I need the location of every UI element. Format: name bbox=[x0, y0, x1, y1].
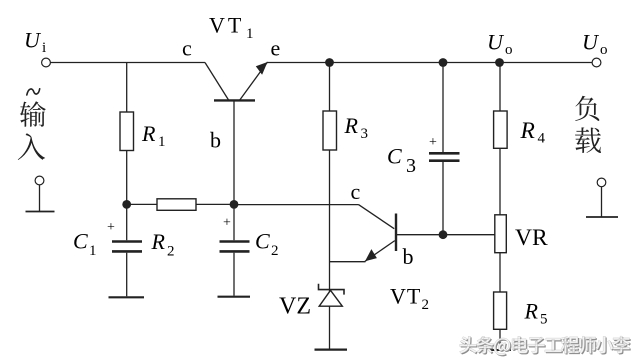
svg-text:R: R bbox=[151, 229, 166, 254]
svg-text:VZ: VZ bbox=[279, 294, 311, 320]
svg-text:VT: VT bbox=[209, 13, 244, 38]
node junction rail-R3 bbox=[325, 58, 334, 67]
label 输 bbox=[20, 101, 46, 127]
capacitor C2 bbox=[218, 204, 251, 296]
svg-text:o: o bbox=[600, 42, 608, 58]
svg-text:U: U bbox=[487, 30, 505, 55]
node junction rail-R4 (Uo) bbox=[495, 58, 504, 67]
resistor R4 bbox=[494, 63, 508, 215]
watermark 头条@电子工程师小李 bbox=[459, 336, 631, 356]
wire to VT2 collector bbox=[234, 204, 359, 206]
wire node to VR wiper bbox=[443, 234, 495, 236]
capacitor C1 bbox=[109, 204, 145, 297]
svg-text:b: b bbox=[403, 244, 414, 269]
svg-text:3: 3 bbox=[361, 126, 369, 142]
svg-text:o: o bbox=[505, 42, 513, 58]
label 入 bbox=[18, 133, 45, 160]
terminal input lower bbox=[35, 176, 44, 185]
svg-text:2: 2 bbox=[422, 297, 430, 313]
svg-text:e: e bbox=[271, 36, 281, 61]
terminal Ui bbox=[42, 58, 51, 67]
svg-text:VT: VT bbox=[390, 284, 421, 309]
svg-text:2: 2 bbox=[271, 243, 279, 259]
terminal load lower bbox=[597, 178, 606, 187]
ground bar VZ bottom bbox=[315, 349, 348, 351]
svg-text:U: U bbox=[24, 28, 42, 53]
svg-text:R: R bbox=[141, 121, 156, 146]
svg-text:VR: VR bbox=[515, 225, 548, 251]
svg-text:3: 3 bbox=[406, 155, 416, 177]
svg-text:c: c bbox=[351, 179, 361, 204]
svg-text:c: c bbox=[182, 36, 192, 61]
svg-text:+: + bbox=[223, 216, 231, 231]
svg-text:+: + bbox=[107, 220, 115, 235]
terminal Uo bbox=[592, 58, 601, 67]
svg-text:1: 1 bbox=[246, 26, 254, 42]
wire input top rail bbox=[50, 62, 205, 64]
resistor R2 bbox=[127, 199, 234, 211]
svg-text:+: + bbox=[429, 135, 437, 150]
capacitor C3 bbox=[429, 63, 460, 235]
svg-text:5: 5 bbox=[540, 312, 548, 328]
node junction R2-C2-VT1b bbox=[230, 200, 239, 209]
node junction R1-R2-C1 bbox=[122, 200, 131, 209]
svg-text:C: C bbox=[387, 144, 402, 169]
node junction rail-C3 bbox=[439, 58, 448, 67]
svg-text:1: 1 bbox=[158, 134, 166, 150]
svg-text:R: R bbox=[520, 118, 535, 144]
svg-text:i: i bbox=[42, 40, 46, 56]
node junction VT2b-C3-VR bbox=[439, 230, 448, 239]
zener diode VZ bbox=[319, 284, 345, 307]
svg-text:2: 2 bbox=[167, 244, 175, 260]
svg-text:C: C bbox=[255, 229, 270, 254]
svg-text:1: 1 bbox=[89, 243, 97, 259]
svg-text:R: R bbox=[524, 299, 539, 324]
potentiometer VR bbox=[495, 215, 507, 292]
transistor VT2 bbox=[330, 205, 445, 262]
svg-text:4: 4 bbox=[538, 131, 546, 147]
transistor VT1 bbox=[205, 62, 268, 204]
label 载 bbox=[575, 127, 601, 153]
svg-text:b: b bbox=[210, 128, 221, 153]
resistor R3 bbox=[323, 63, 337, 349]
wire output top rail bbox=[267, 62, 592, 64]
svg-text:C: C bbox=[73, 229, 88, 254]
label ~ input tilde bbox=[27, 89, 40, 95]
svg-text:U: U bbox=[582, 30, 600, 55]
label 负 bbox=[575, 96, 599, 121]
resistor R1 bbox=[120, 63, 134, 205]
svg-text:R: R bbox=[344, 113, 359, 138]
resistor R5 bbox=[489, 292, 511, 350]
